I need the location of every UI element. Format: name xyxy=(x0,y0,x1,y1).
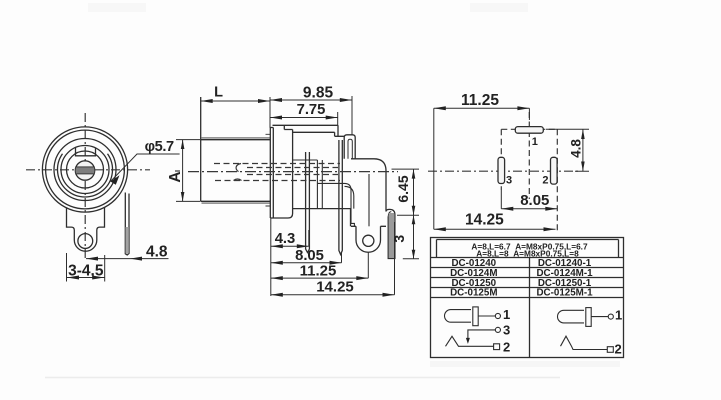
svg-text:9.85: 9.85 xyxy=(303,85,334,102)
svg-text:4.8: 4.8 xyxy=(146,244,168,261)
svg-text:DC-0125M: DC-0125M xyxy=(450,288,497,299)
svg-text:4.3: 4.3 xyxy=(275,231,296,247)
svg-text:3-4,5: 3-4,5 xyxy=(68,263,104,280)
svg-text:3: 3 xyxy=(503,323,510,338)
svg-text:11.25: 11.25 xyxy=(461,92,499,109)
svg-text:1: 1 xyxy=(532,136,538,148)
svg-text:2: 2 xyxy=(615,342,622,357)
svg-text:φ5.7: φ5.7 xyxy=(145,139,174,155)
svg-text:L: L xyxy=(214,85,223,101)
svg-text:14.25: 14.25 xyxy=(465,212,504,229)
svg-text:11.25: 11.25 xyxy=(300,262,337,279)
svg-text:2: 2 xyxy=(542,174,548,186)
svg-text:1: 1 xyxy=(615,308,622,323)
svg-text:3: 3 xyxy=(391,235,407,243)
svg-text:2: 2 xyxy=(503,340,510,355)
svg-text:8.05: 8.05 xyxy=(520,192,549,209)
svg-text:7.75: 7.75 xyxy=(297,102,326,118)
svg-text:3: 3 xyxy=(506,174,512,186)
svg-text:DC-0125M-1: DC-0125M-1 xyxy=(536,288,593,299)
svg-text:1: 1 xyxy=(503,307,510,322)
svg-text:14.25: 14.25 xyxy=(316,278,354,295)
svg-text:6.45: 6.45 xyxy=(395,175,411,202)
svg-text:4.8: 4.8 xyxy=(569,139,584,158)
svg-text:A: A xyxy=(167,171,184,182)
